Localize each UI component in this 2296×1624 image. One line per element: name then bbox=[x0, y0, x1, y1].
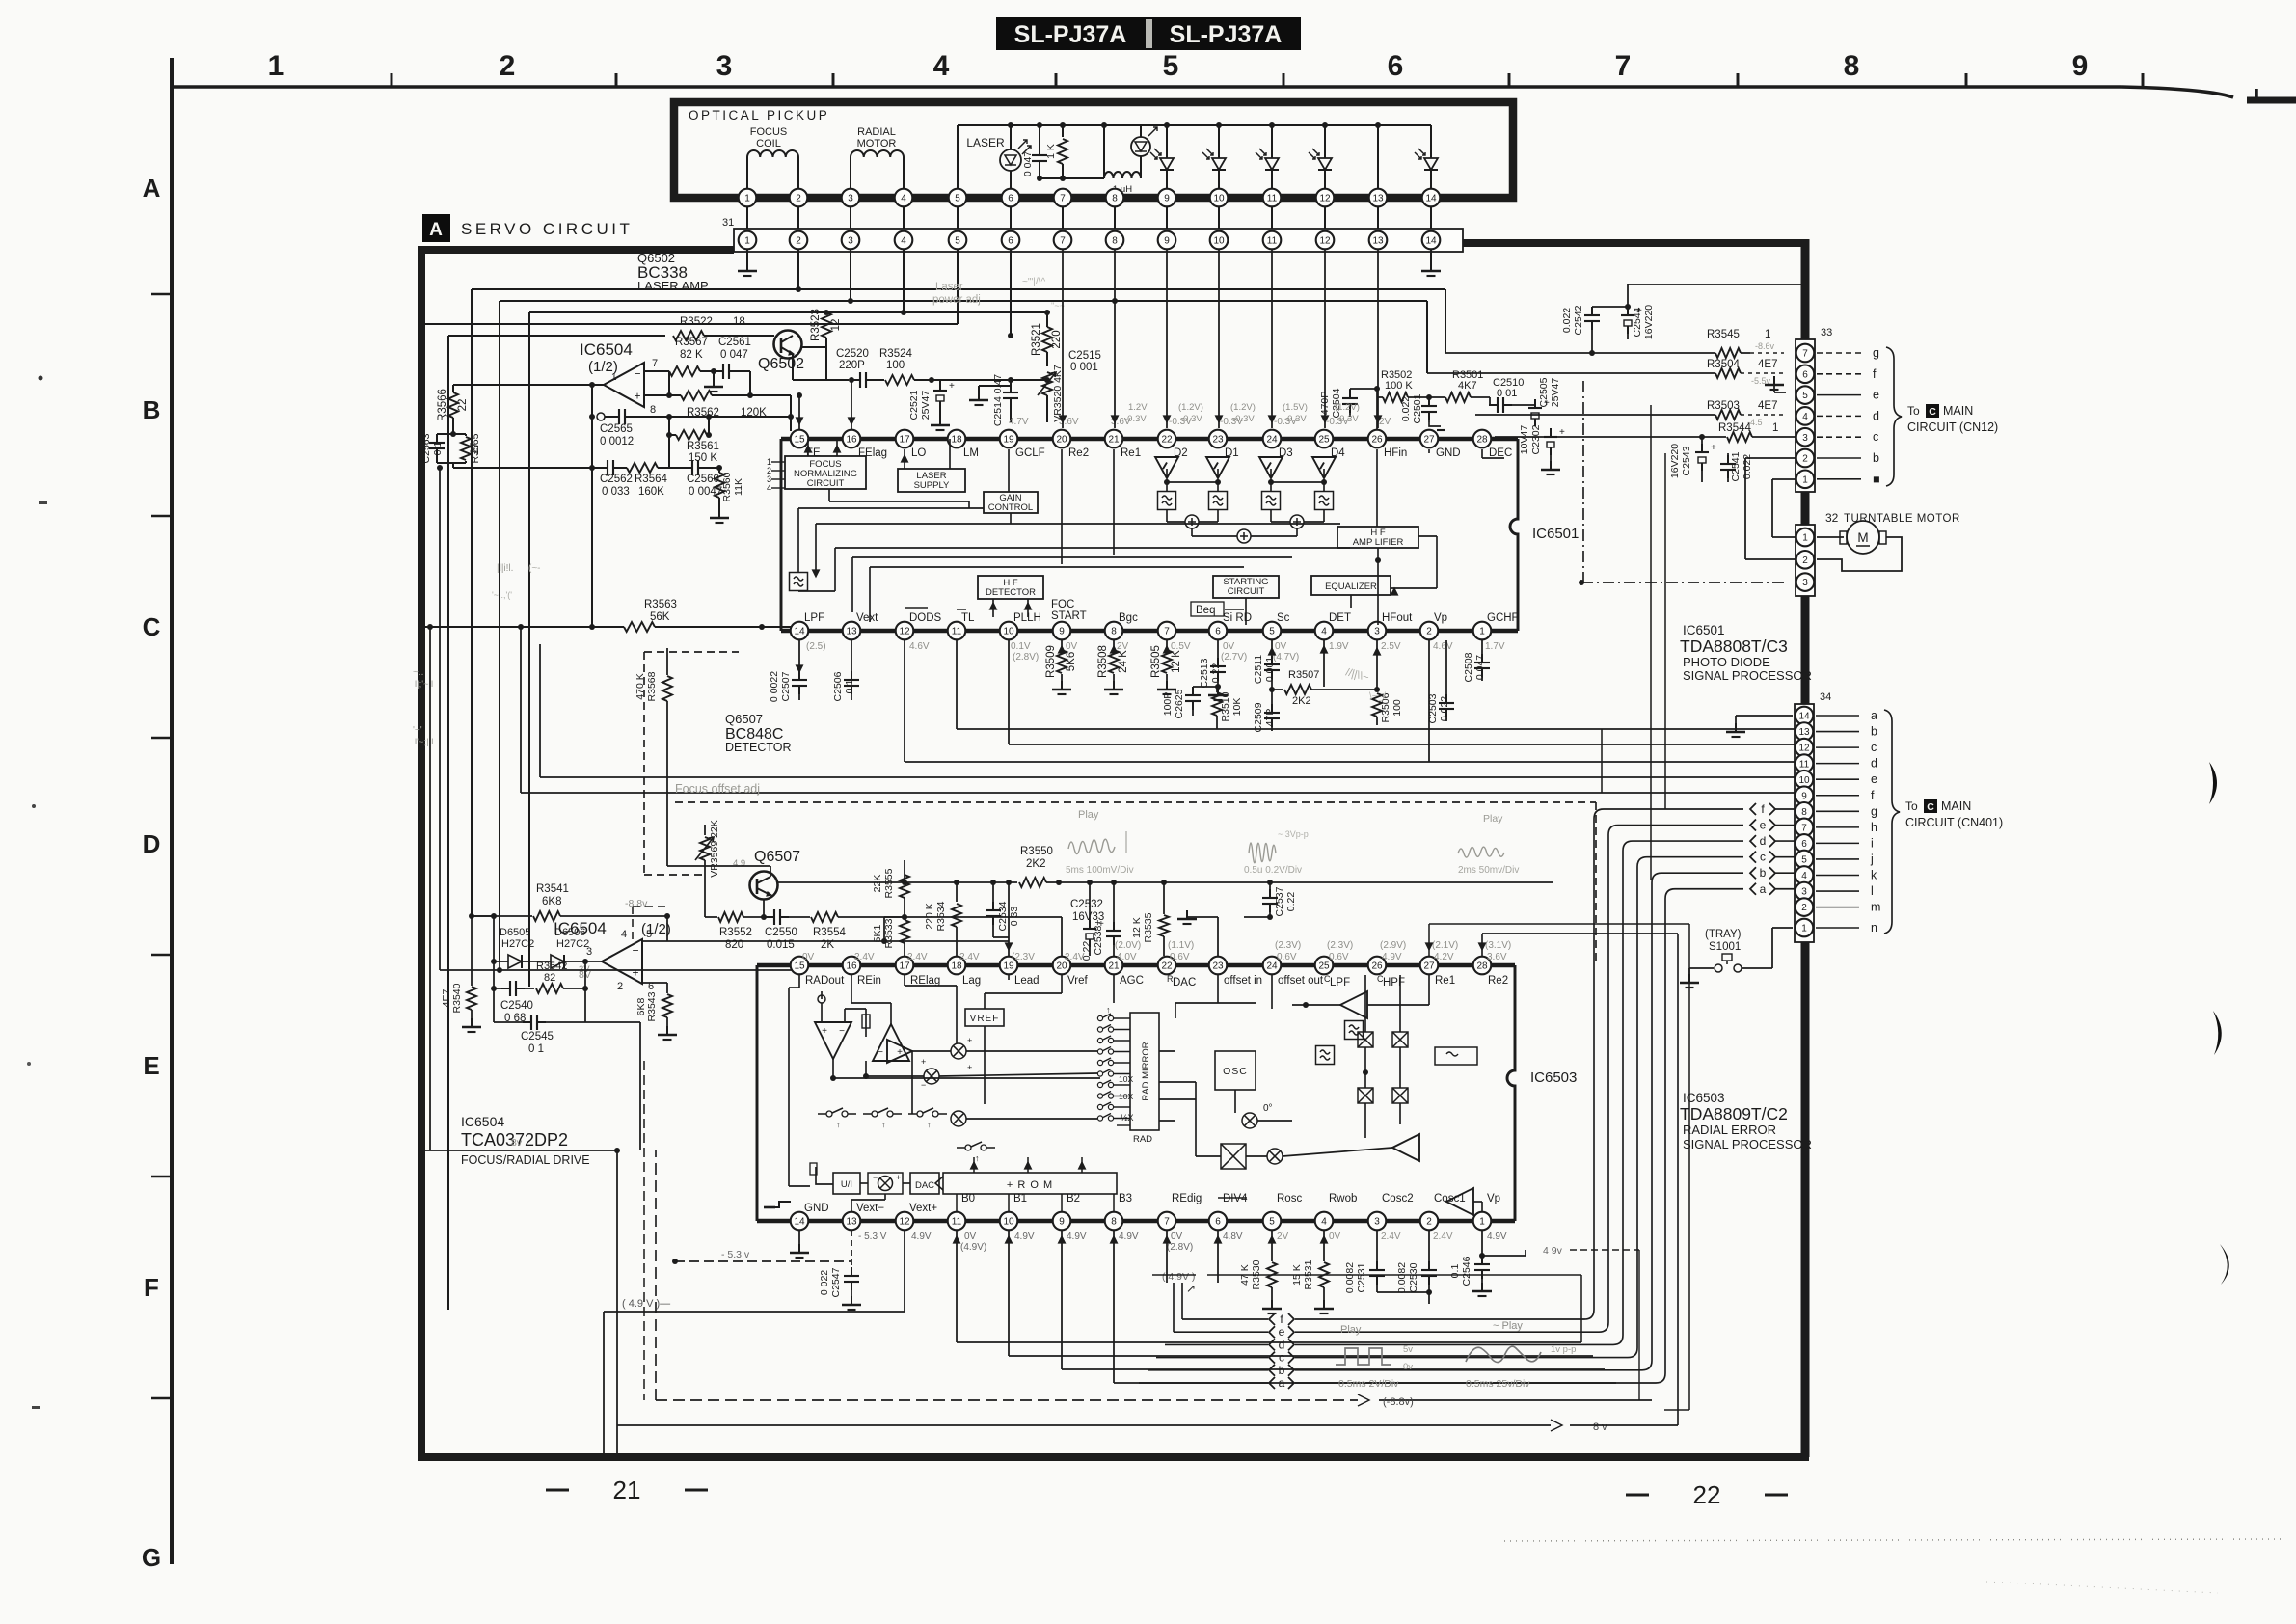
svg-text:1: 1 bbox=[1772, 422, 1778, 434]
svg-text:0.6V: 0.6V bbox=[1277, 952, 1297, 962]
svg-text:a: a bbox=[1871, 709, 1877, 722]
wire 4.9v right stub bbox=[1482, 1245, 1639, 1400]
svg-text:REdig: REdig bbox=[1172, 1193, 1202, 1204]
svg-text:12 K: 12 K bbox=[1131, 917, 1143, 938]
top ruler line bbox=[172, 87, 2296, 100]
IC6503 top pins 15-28 bbox=[791, 957, 1492, 975]
svg-text:2: 2 bbox=[796, 194, 801, 204]
wire vref internal bbox=[985, 975, 1062, 1104]
svg-text:+: + bbox=[1711, 443, 1716, 453]
svg-text:C2545: C2545 bbox=[521, 1031, 554, 1042]
resistor R3544 bbox=[1495, 422, 1796, 442]
wire Q6502 out bbox=[793, 347, 849, 380]
connector 33 brace bbox=[1886, 347, 1902, 486]
svg-text:14: 14 bbox=[794, 1217, 805, 1228]
svg-text:0 047: 0 047 bbox=[720, 349, 748, 361]
svg-text:23: 23 bbox=[1212, 961, 1224, 972]
resistor R3534 bbox=[924, 880, 961, 956]
svg-text:IC6504: IC6504 bbox=[461, 1114, 504, 1129]
waveform note mid2 bbox=[1244, 829, 1309, 876]
svg-text:g: g bbox=[1873, 346, 1879, 360]
resistor R3562 bbox=[644, 391, 791, 431]
svg-text:3: 3 bbox=[716, 50, 733, 82]
svg-text:0 001: 0 001 bbox=[1070, 362, 1098, 373]
svg-text:2: 2 bbox=[1802, 454, 1808, 465]
wire col10 drop bbox=[1216, 249, 1223, 428]
svg-text:2ms 50mv/Div: 2ms 50mv/Div bbox=[1458, 865, 1519, 876]
resistor R3554 bbox=[789, 912, 907, 951]
svg-text:4.7V: 4.7V bbox=[1009, 417, 1029, 427]
svg-text:8v: 8v bbox=[511, 1137, 523, 1149]
svg-text:R3503: R3503 bbox=[1707, 400, 1740, 412]
IC6503 top pin names bbox=[805, 974, 1508, 988]
transistor Q6507 designation bbox=[725, 712, 792, 754]
svg-text:11: 11 bbox=[952, 627, 962, 637]
svg-text:S1001: S1001 bbox=[1709, 941, 1741, 953]
svg-text:100P: 100P bbox=[1162, 692, 1174, 717]
IC6501 lpf filter bbox=[790, 573, 808, 591]
faint scan smudge detector bbox=[1344, 666, 1386, 702]
svg-text:Si RD: Si RD bbox=[1223, 612, 1252, 624]
wire laser top bus bbox=[958, 122, 1431, 189]
svg-text:Q6507: Q6507 bbox=[754, 849, 800, 865]
capacitor C2541 bbox=[1720, 451, 1753, 482]
svg-text:1: 1 bbox=[268, 50, 284, 82]
svg-text:11: 11 bbox=[1267, 236, 1278, 247]
svg-text:5: 5 bbox=[1269, 1217, 1275, 1228]
svg-text:6: 6 bbox=[1008, 194, 1013, 204]
IC6501 top pin names bbox=[806, 447, 1512, 459]
resistor R3542 bbox=[525, 961, 585, 993]
svg-text:1 K: 1 K bbox=[1045, 144, 1057, 159]
svg-text:~ 3Vp-p: ~ 3Vp-p bbox=[1278, 829, 1309, 839]
wire 8V bottom row bbox=[617, 934, 1678, 1433]
svg-text:4: 4 bbox=[1321, 627, 1327, 637]
connector 34 letters bbox=[1816, 709, 1880, 934]
svg-text:0.5ms 2V/Div: 0.5ms 2V/Div bbox=[1338, 1378, 1399, 1390]
svg-text:a: a bbox=[1760, 882, 1767, 896]
svg-text:(4.9V): (4.9V) bbox=[960, 1242, 986, 1253]
svg-text:(2.8V): (2.8V) bbox=[1013, 652, 1039, 663]
svg-text:C2562: C2562 bbox=[600, 474, 633, 485]
svg-text:9: 9 bbox=[1059, 627, 1065, 637]
svg-text:HFout: HFout bbox=[1382, 612, 1413, 624]
svg-text:C2541: C2541 bbox=[1730, 451, 1742, 481]
svg-text:R3523: R3523 bbox=[810, 309, 822, 341]
svg-text:R3510: R3510 bbox=[1220, 691, 1231, 721]
svg-text:e: e bbox=[1871, 772, 1877, 786]
resistor R3540 bbox=[441, 916, 481, 1032]
svg-text:0.022: 0.022 bbox=[1561, 308, 1573, 333]
svg-text:DAC: DAC bbox=[915, 1180, 934, 1191]
capacitor C2506 bbox=[832, 640, 859, 701]
svg-text:7: 7 bbox=[1164, 1217, 1170, 1228]
node R3563 bbox=[424, 599, 791, 632]
wire R3522 to Q6502 bbox=[704, 335, 774, 337]
IC6501 top pin voltages bbox=[1009, 417, 1391, 427]
svg-text:g: g bbox=[1871, 804, 1877, 818]
svg-text:0V: 0V bbox=[1223, 641, 1235, 652]
svg-text:27: 27 bbox=[1423, 961, 1435, 972]
svg-text:R3544: R3544 bbox=[1718, 422, 1751, 434]
IC6501 bottom pins 14-1 bbox=[791, 622, 1492, 640]
svg-text:~ Play: ~ Play bbox=[1493, 1320, 1523, 1332]
svg-text:4.8V: 4.8V bbox=[1223, 1232, 1243, 1242]
connector 33 bbox=[1796, 327, 1832, 492]
svg-text:R3564: R3564 bbox=[635, 474, 667, 485]
svg-text:7: 7 bbox=[1060, 236, 1066, 247]
svg-text:(2.3V: (2.3V bbox=[1012, 952, 1035, 962]
IC6504 full designation bbox=[461, 1114, 590, 1167]
svg-text:IC6504: IC6504 bbox=[580, 340, 633, 359]
svg-text:1.9V: 1.9V bbox=[1329, 641, 1349, 652]
svg-text:SIGNAL PROCESSOR: SIGNAL PROCESSOR bbox=[1683, 1137, 1812, 1151]
svg-text:R3505: R3505 bbox=[1150, 645, 1162, 678]
IC6501 gain control block bbox=[984, 492, 1038, 513]
svg-text:HFin: HFin bbox=[1384, 447, 1407, 459]
svg-text:6: 6 bbox=[1008, 236, 1013, 247]
svg-text:D6505: D6505 bbox=[500, 927, 530, 938]
resistor R3552 bbox=[705, 899, 767, 951]
svg-text:Play: Play bbox=[1078, 809, 1099, 821]
svg-text:B2: B2 bbox=[1067, 1193, 1080, 1204]
svg-text:CIRCUIT (CN12): CIRCUIT (CN12) bbox=[1907, 420, 1998, 434]
svg-text:R3508: R3508 bbox=[1097, 645, 1109, 678]
svg-text:2: 2 bbox=[617, 981, 623, 992]
capacitor C2540 bbox=[494, 981, 533, 1024]
capacitor C2503 bbox=[1427, 640, 1454, 723]
resistor R3524 bbox=[875, 348, 932, 385]
svg-text:0 022: 0 022 bbox=[819, 1270, 830, 1295]
svg-text:0.1V: 0.1V bbox=[1011, 641, 1031, 652]
IC6503 mixer row bbox=[863, 1036, 1097, 1126]
svg-text:0.6V: 0.6V bbox=[1170, 952, 1190, 962]
wire lead pin19 bbox=[1006, 880, 1013, 956]
svg-text:R: R bbox=[1167, 974, 1174, 984]
svg-text:14: 14 bbox=[1798, 712, 1810, 722]
svg-text:B0: B0 bbox=[961, 1193, 975, 1204]
svg-text:d: d bbox=[1760, 834, 1767, 848]
wire bus A2 bbox=[472, 249, 1445, 914]
svg-text:C2543: C2543 bbox=[1681, 446, 1692, 475]
IC6501 adders bbox=[1185, 515, 1304, 543]
svg-text:COIL: COIL bbox=[756, 138, 781, 149]
svg-text:l: l bbox=[1871, 884, 1874, 898]
svg-text:Beq: Beq bbox=[1196, 605, 1215, 616]
svg-text:R3561: R3561 bbox=[687, 441, 719, 452]
IC6503 top voltages bbox=[802, 940, 1511, 962]
svg-text:1: 1 bbox=[1479, 1217, 1485, 1228]
svg-text:20: 20 bbox=[1056, 435, 1067, 446]
svg-text:E: E bbox=[143, 1051, 159, 1080]
svg-text:4.9V: 4.9V bbox=[1067, 1232, 1087, 1242]
resistor R3565 bbox=[450, 431, 481, 468]
capacitor C2563 bbox=[420, 433, 453, 463]
svg-text:Re2: Re2 bbox=[1068, 447, 1089, 459]
svg-text:RADout: RADout bbox=[805, 975, 845, 987]
resistor R3508 bbox=[1097, 640, 1129, 694]
svg-text:d: d bbox=[1279, 1338, 1285, 1351]
capacitor C2560 bbox=[669, 460, 722, 498]
svg-text:CONTROL: CONTROL bbox=[988, 502, 1033, 513]
laser diode bbox=[966, 125, 1031, 189]
svg-text:3: 3 bbox=[1802, 433, 1808, 444]
resistor R3510 bbox=[1212, 687, 1243, 729]
svg-text:4: 4 bbox=[621, 929, 627, 940]
svg-text:R3522: R3522 bbox=[680, 316, 713, 328]
svg-text:RADIAL: RADIAL bbox=[857, 126, 896, 138]
IC6503 bottom voltages bbox=[858, 1232, 1507, 1253]
svg-text:2.4V: 2.4V bbox=[959, 952, 980, 962]
svg-text:1v p-p: 1v p-p bbox=[1551, 1344, 1576, 1355]
svg-text:TL: TL bbox=[961, 612, 975, 624]
wire B3 col down bbox=[1111, 1231, 1617, 1383]
svg-text:−: − bbox=[878, 1047, 883, 1058]
svg-text:12: 12 bbox=[1319, 236, 1331, 247]
inductor 1uH bbox=[1104, 125, 1141, 195]
svg-text:4.9V: 4.9V bbox=[911, 1232, 932, 1242]
svg-text:PHOTO DIODE: PHOTO DIODE bbox=[1683, 655, 1770, 669]
svg-text:10: 10 bbox=[1798, 775, 1810, 786]
svg-text:(2.9V): (2.9V) bbox=[1380, 940, 1406, 951]
capacitor C2531 bbox=[1344, 1231, 1385, 1293]
wire col8 drop bbox=[1112, 249, 1119, 428]
svg-text:C2302: C2302 bbox=[1530, 424, 1542, 454]
svg-text:100 K: 100 K bbox=[1385, 380, 1413, 392]
transistor Q6502 bbox=[758, 331, 804, 373]
svg-text:26: 26 bbox=[1371, 435, 1383, 446]
svg-text:4.9V: 4.9V bbox=[1382, 952, 1402, 962]
svg-text:5ms 100mV/Div: 5ms 100mV/Div bbox=[1066, 865, 1134, 876]
to main circuit CN12 label bbox=[1907, 404, 1998, 434]
svg-text:2: 2 bbox=[500, 50, 516, 82]
svg-text:16: 16 bbox=[846, 435, 857, 446]
svg-text:-0.3V: -0.3V bbox=[1337, 414, 1359, 424]
svg-text:C2625: C2625 bbox=[1174, 689, 1185, 718]
svg-text:b: b bbox=[1871, 725, 1877, 739]
svg-text:25: 25 bbox=[1318, 961, 1330, 972]
svg-text:↑: ↑ bbox=[927, 1120, 932, 1129]
ground pin14 conn31 bbox=[1421, 249, 1441, 276]
svg-text:+: + bbox=[967, 1036, 972, 1045]
wire left col to diode row bbox=[472, 913, 497, 1022]
svg-text:C2505: C2505 bbox=[1538, 377, 1550, 407]
svg-text:■: ■ bbox=[1873, 473, 1880, 486]
svg-text:↑: ↑ bbox=[836, 1120, 841, 1129]
resistor R3503 bbox=[1475, 400, 1784, 427]
main servo circuit border bbox=[418, 239, 1809, 1457]
svg-text:f: f bbox=[1873, 367, 1877, 381]
wire mid node bbox=[709, 395, 794, 420]
IC6503 osc block bbox=[1215, 1051, 1256, 1090]
capacitor C2521 bbox=[908, 377, 955, 430]
svg-text:(1.1V): (1.1V) bbox=[1168, 940, 1194, 951]
svg-text:27: 27 bbox=[1423, 435, 1435, 446]
svg-text:R3545: R3545 bbox=[1707, 329, 1740, 340]
svg-text:0.5ms 25v/Div: 0.5ms 25v/Div bbox=[1466, 1378, 1530, 1390]
wire col11 drop bbox=[1269, 249, 1276, 428]
svg-text:5: 5 bbox=[1269, 627, 1275, 637]
wire bus to 34 pin9 bbox=[521, 627, 1795, 793]
svg-text:4: 4 bbox=[1802, 412, 1808, 422]
connector 33 wire letters bbox=[1817, 346, 1880, 486]
IC6503 bottom pins 14-1 bbox=[791, 1212, 1492, 1231]
svg-text:11: 11 bbox=[1799, 759, 1810, 770]
svg-text:4K7: 4K7 bbox=[1458, 380, 1477, 392]
svg-text:e: e bbox=[1873, 389, 1879, 402]
svg-text:10X: 10X bbox=[1119, 1074, 1133, 1084]
capacitor C2515 label bbox=[1068, 350, 1101, 373]
focus coil bbox=[747, 126, 798, 189]
svg-text:SL-PJ37A: SL-PJ37A bbox=[1014, 21, 1127, 48]
svg-text:15: 15 bbox=[794, 435, 805, 446]
svg-text:R3552: R3552 bbox=[719, 927, 752, 938]
svg-text:11: 11 bbox=[1267, 194, 1278, 204]
svg-text:2.4V: 2.4V bbox=[1065, 952, 1085, 962]
svg-text:(3.1V): (3.1V) bbox=[1485, 940, 1511, 951]
IC6501 edge label bbox=[1532, 526, 1579, 542]
svg-text:9: 9 bbox=[1801, 791, 1807, 801]
svg-text:33: 33 bbox=[1821, 327, 1832, 338]
svg-text:FOC: FOC bbox=[1051, 599, 1074, 610]
svg-text:n: n bbox=[1871, 921, 1877, 934]
left ruler line bbox=[170, 58, 174, 1564]
svg-text:5: 5 bbox=[955, 194, 960, 204]
svg-text:6: 6 bbox=[1802, 369, 1808, 380]
svg-text:0 0012: 0 0012 bbox=[600, 436, 634, 447]
wire to VR3520 bbox=[932, 377, 1050, 383]
svg-text:e: e bbox=[1760, 819, 1767, 832]
svg-text:offset in: offset in bbox=[1224, 975, 1262, 987]
svg-text:10: 10 bbox=[1003, 627, 1014, 637]
svg-text:(2.3V): (2.3V) bbox=[1327, 940, 1353, 951]
svg-text:0 047: 0 047 bbox=[1022, 151, 1034, 176]
svg-text:3: 3 bbox=[848, 236, 853, 247]
svg-text:R3540: R3540 bbox=[451, 983, 463, 1013]
wire opamp out left bbox=[453, 385, 595, 451]
svg-text:-0.3V: -0.3V bbox=[1180, 414, 1202, 424]
capacitor C2538 bbox=[1081, 880, 1121, 961]
svg-text:LASER AMP: LASER AMP bbox=[637, 279, 709, 293]
svg-text:16V220: 16V220 bbox=[1643, 305, 1655, 339]
left ruler ticks bbox=[151, 294, 172, 1398]
svg-text:Rwob: Rwob bbox=[1329, 1193, 1357, 1204]
ground pin14 IC6503 bbox=[764, 1202, 809, 1258]
svg-text:12: 12 bbox=[899, 627, 910, 637]
svg-text:0 0022: 0 0022 bbox=[769, 671, 780, 702]
svg-text:4.9V: 4.9V bbox=[1014, 1232, 1035, 1242]
IC6503 rad mirror block bbox=[1119, 1013, 1159, 1145]
resistor R3564 bbox=[622, 463, 669, 498]
svg-text:21: 21 bbox=[1108, 435, 1120, 446]
capacitor C2545 bbox=[494, 986, 588, 1055]
wires pickup to connector 31 bbox=[747, 206, 1431, 230]
IC6503 mixer dac bbox=[851, 1173, 910, 1211]
svg-text:4 9v: 4 9v bbox=[1543, 1245, 1563, 1257]
svg-text:Vp: Vp bbox=[1434, 612, 1447, 624]
svg-text:6K8: 6K8 bbox=[635, 998, 647, 1016]
svg-text:Re2: Re2 bbox=[1488, 975, 1508, 987]
svg-text:21: 21 bbox=[1108, 961, 1120, 972]
svg-text:C2501: C2501 bbox=[1412, 393, 1423, 423]
IC6501 equalizer block bbox=[1311, 576, 1391, 595]
svg-text:H27C2: H27C2 bbox=[556, 938, 589, 950]
IC6501 focus normalizing circuit block bbox=[785, 456, 866, 489]
svg-text:1: 1 bbox=[744, 236, 750, 247]
svg-text:+ R O M: + R O M bbox=[1007, 1179, 1053, 1191]
wire conn33 pin2 down bbox=[1745, 458, 1796, 559]
capacitor C2501 bbox=[1400, 393, 1445, 430]
svg-text:C2521: C2521 bbox=[908, 390, 920, 420]
left ruler letters bbox=[142, 174, 161, 1572]
svg-text:c: c bbox=[1279, 1351, 1284, 1365]
svg-text:0.1: 0.1 bbox=[844, 680, 855, 694]
wire LC mini bus bbox=[1037, 176, 1104, 181]
diode D6505 bbox=[494, 927, 540, 968]
svg-text:C: C bbox=[143, 612, 161, 641]
svg-text:(2.7V): (2.7V) bbox=[1221, 652, 1247, 663]
svg-text:DODS: DODS bbox=[909, 612, 942, 624]
IC6503 edge label bbox=[1530, 1069, 1577, 1086]
waveform squarewave play bbox=[1336, 1324, 1413, 1390]
svg-text:VREF: VREF bbox=[970, 1014, 1000, 1024]
IC6503 switch pairs lower bbox=[818, 1108, 856, 1129]
svg-text:10: 10 bbox=[1213, 236, 1225, 247]
capacitor C2537 bbox=[1244, 882, 1297, 920]
svg-text:2.5V: 2.5V bbox=[1381, 641, 1401, 652]
capacitor C2505 bbox=[1524, 377, 1561, 426]
svg-text:Vext: Vext bbox=[856, 612, 878, 624]
svg-text:C2531: C2531 bbox=[1356, 1262, 1367, 1292]
svg-text:4.6V: 4.6V bbox=[1433, 641, 1453, 652]
wire B2 col down bbox=[1059, 1231, 1606, 1369]
svg-text:−: − bbox=[873, 1173, 878, 1182]
top ruler numbers bbox=[268, 50, 2089, 82]
capacitor C2550 bbox=[765, 909, 797, 951]
IC6501 laser supply block bbox=[898, 469, 965, 492]
svg-text:b: b bbox=[1760, 866, 1767, 880]
svg-text:16V220: 16V220 bbox=[1669, 444, 1681, 478]
IC6503 u-i block bbox=[810, 1163, 860, 1194]
IC6503 vref box bbox=[965, 1009, 1004, 1026]
svg-text:GND: GND bbox=[804, 1203, 829, 1214]
svg-text:2.4V: 2.4V bbox=[907, 952, 928, 962]
capacitor C2504 bbox=[1319, 386, 1380, 418]
svg-text:20: 20 bbox=[1056, 961, 1067, 972]
svg-text:OSC: OSC bbox=[1223, 1066, 1248, 1077]
svg-text:13: 13 bbox=[1798, 727, 1810, 738]
servo circuit section label A bbox=[422, 214, 633, 242]
wire B0 col down bbox=[954, 1231, 1582, 1342]
wire RADout pin15 col bbox=[500, 956, 803, 970]
svg-text:31: 31 bbox=[722, 217, 734, 229]
svg-text:Vref: Vref bbox=[1067, 975, 1088, 987]
svg-text:f: f bbox=[1871, 789, 1875, 802]
wire bus to 34 pin12 bbox=[1009, 640, 1795, 744]
svg-text:Vext−: Vext− bbox=[856, 1203, 884, 1214]
svg-text:REin: REin bbox=[857, 975, 881, 987]
capacitor C2544 bbox=[1621, 284, 1805, 339]
svg-text:2.4V: 2.4V bbox=[1381, 1232, 1401, 1242]
wire bus to 34 pin10 bbox=[540, 644, 1795, 777]
svg-text:10K: 10K bbox=[1231, 698, 1243, 717]
svg-text:0 01: 0 01 bbox=[1497, 388, 1517, 399]
faint waveform note A bbox=[1022, 277, 1065, 311]
wire bus to 34 pin11 bbox=[905, 640, 1795, 762]
optical pickup title bbox=[689, 108, 829, 122]
svg-text:Re1: Re1 bbox=[1121, 447, 1141, 459]
svg-text:2: 2 bbox=[1426, 1217, 1432, 1228]
